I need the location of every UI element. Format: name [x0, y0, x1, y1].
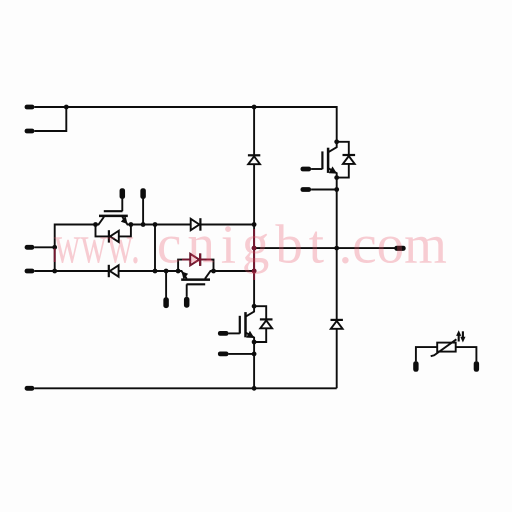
wire left bus tinted by watermark — [54, 249, 56, 263]
transistor Q2 — [178, 271, 213, 308]
wire Q4 aux emitter — [218, 352, 254, 357]
junction T4 / rail B — [52, 269, 57, 274]
junction Q1 collector — [93, 222, 98, 227]
wire bottom rail — [34, 387, 336, 389]
junction aux stub / rail A — [141, 222, 146, 227]
wire rail A to rail B connector — [154, 225, 156, 272]
wire T2 riser to top rail — [34, 107, 66, 131]
terminal T3 — [25, 245, 35, 250]
junction bottom rail / center bus — [252, 386, 257, 391]
terminal T5 — [25, 386, 35, 391]
diode D4 — [55, 265, 178, 277]
junction mid rail / center bus — [252, 246, 257, 251]
terminal T1 — [25, 105, 35, 110]
terminal T6 (output) — [394, 246, 405, 251]
junction Q1 emitter — [129, 222, 134, 227]
wire right bus — [336, 178, 338, 389]
wire top rail — [66, 107, 336, 142]
junction T1/T2 — [64, 105, 69, 110]
wire rail A right of Q1 — [131, 224, 254, 226]
junction Q3 aux emitter — [334, 187, 339, 192]
junction Q4 aux emitter — [252, 352, 257, 357]
junction T3 / left bus — [52, 245, 57, 250]
junction connector / rail A — [153, 222, 158, 227]
terminal T2 — [25, 129, 35, 134]
diode D6 (antiparallel to Q2) — [178, 253, 213, 271]
transistor Q3 — [301, 142, 338, 178]
wire left bus vertical — [55, 225, 96, 272]
wire rail B right of Q2 — [214, 270, 255, 272]
diode D7 (antiparallel to Q3) — [337, 142, 355, 178]
svg-text:.com: .com — [339, 214, 447, 275]
junction aux stub / rail B — [164, 269, 169, 274]
wire center bus upper — [253, 107, 255, 306]
wire center bus lower — [253, 342, 255, 388]
diode D6 tint — [182, 253, 212, 265]
junction connector / rail B — [153, 269, 158, 274]
diode D3 (antiparallel to Q1) — [96, 225, 131, 243]
transistor Q4 — [218, 306, 255, 342]
junction Q3 collector — [334, 139, 339, 144]
junction Q4 emitter — [252, 340, 257, 345]
wire T4 — [34, 270, 54, 272]
thermistor RT1 — [413, 330, 479, 372]
junction mid rail / center bus (tinted) — [252, 246, 257, 251]
wire Q3 aux emitter — [301, 187, 337, 192]
transistor Q1 — [96, 188, 131, 224]
wire T1 to top rail — [34, 106, 66, 108]
junction mid rail / right bus — [334, 246, 339, 251]
junction Q4 collector — [252, 304, 257, 309]
svg-text:www.: www. — [54, 214, 140, 275]
diode D2 — [191, 218, 201, 231]
junction rail B / center bus (tinted) — [252, 269, 257, 274]
diode D5 — [331, 320, 343, 329]
junction Q3 emitter — [334, 175, 339, 180]
junction rail A / center bus — [252, 222, 257, 227]
wire T3 — [34, 246, 54, 248]
junction Q2 emitter — [176, 269, 181, 274]
terminal stub above Q1 (aux emitter) — [140, 188, 146, 224]
junction Q2 collector — [211, 269, 216, 274]
diode D1 — [248, 155, 260, 164]
terminal stub below Q2 (aux emitter) — [163, 271, 169, 308]
diode D8 (antiparallel to Q4) — [254, 306, 272, 342]
wire mid rail — [254, 247, 394, 249]
wire center bus tinted by watermark — [253, 229, 255, 280]
terminal T4 — [25, 269, 35, 274]
junction rail B / center bus — [252, 269, 257, 274]
junction top rail / center bus — [252, 105, 257, 110]
